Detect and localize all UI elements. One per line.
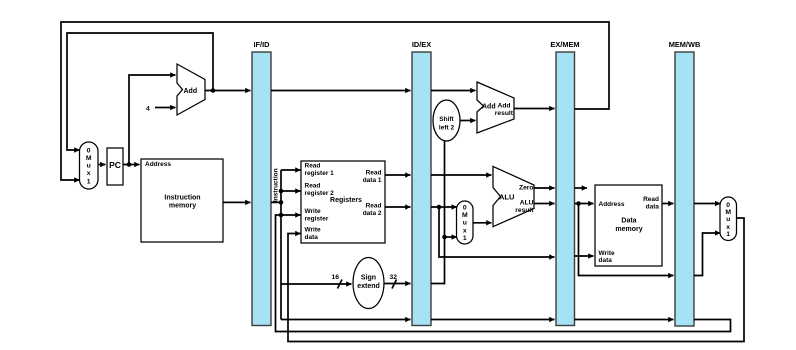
- svg-text:ALU: ALU: [499, 193, 514, 202]
- svg-text:IF/ID: IF/ID: [253, 40, 270, 49]
- node: Add output junction: [211, 88, 216, 93]
- svg-text:Read: Read: [305, 183, 321, 190]
- node: PC output junction: [127, 162, 132, 167]
- svg-text:u: u: [87, 163, 91, 170]
- pipeline register IF/ID: [252, 40, 271, 326]
- svg-text:Zero: Zero: [519, 185, 534, 192]
- wire: PC+4 loop Add to mux M1 input 0: [67, 33, 213, 150]
- bus slash 32: [390, 274, 398, 289]
- svg-text:Sign: Sign: [361, 275, 376, 282]
- svg-text:M: M: [462, 212, 468, 219]
- svg-text:32: 32: [390, 274, 398, 281]
- svg-text:16: 16: [332, 274, 340, 281]
- svg-text:Data: Data: [621, 218, 636, 225]
- svg-text:data 2: data 2: [363, 210, 382, 217]
- svg-text:Write: Write: [599, 250, 616, 257]
- wire: PC+4 ID/EX to branch Add top input: [431, 90, 476, 92]
- wire: ALU result to EX/MEM: [534, 203, 555, 205]
- wire: mux M1 to PC: [98, 164, 106, 166]
- wire: Read data 2 down to EX/MEM write data: [439, 207, 555, 257]
- svg-text:x: x: [463, 227, 467, 234]
- wire: branch Add result to EX/MEM: [514, 108, 555, 110]
- svg-text:PC: PC: [109, 160, 121, 170]
- adder Add (PC+4): [177, 64, 205, 115]
- svg-text:1: 1: [463, 235, 467, 242]
- svg-text:register 2: register 2: [305, 190, 335, 197]
- svg-text:Address: Address: [599, 201, 625, 208]
- wire: PC to Instruction memory Address: [123, 164, 140, 166]
- svg-text:data 1: data 1: [363, 177, 382, 184]
- svg-text:x: x: [87, 170, 91, 177]
- wire: write register number pass IF/ID trunk to ID/EX: [281, 319, 411, 321]
- mux M2 (ALU src): [457, 201, 474, 244]
- svg-text:memory: memory: [615, 226, 642, 233]
- svg-text:Add: Add: [498, 103, 511, 110]
- wire: ALU Zero to EX/MEM: [534, 187, 555, 189]
- wire: ALU result MEM/WB to mux M3 input 1: [694, 233, 720, 276]
- pipeline register MEM/WB: [669, 40, 701, 326]
- wire: Shift left 2 to branch Add bottom input: [460, 120, 476, 122]
- svg-text:M: M: [86, 155, 92, 162]
- svg-text:x: x: [726, 224, 730, 231]
- svg-text:MEM/WB: MEM/WB: [669, 40, 701, 49]
- svg-text:Instruction: Instruction: [273, 168, 280, 202]
- svg-text:1: 1: [87, 179, 91, 186]
- node: ALU result junction: [576, 201, 581, 206]
- wire: sign-extended ID/EX to shift-left-2 vertical: [431, 141, 445, 284]
- svg-text:u: u: [463, 219, 467, 226]
- svg-text:register: register: [305, 216, 329, 223]
- wire: instruction to Read register 1: [281, 169, 301, 171]
- svg-text:u: u: [726, 216, 730, 223]
- node: read register 2 branch junction: [279, 189, 284, 194]
- wire: write-back data mux M3 to Registers Write data: [288, 218, 744, 342]
- mux M3 (write-back): [720, 197, 737, 241]
- mux M1 (PC source): [80, 142, 99, 189]
- wire: write register number loop MEM/WB to Registers Write register: [276, 215, 731, 332]
- svg-text:M: M: [725, 209, 731, 216]
- wire: PC to Add top input: [129, 75, 176, 165]
- node: read data 2 branch junction: [437, 205, 442, 210]
- svg-text:result: result: [515, 207, 534, 214]
- node: ALU mux input-1 branch junction: [442, 235, 447, 240]
- wire: PC+4 IF/ID to ID/EX: [271, 90, 411, 92]
- svg-text:data: data: [305, 234, 319, 241]
- svg-text:Shift: Shift: [439, 116, 454, 123]
- wire: instruction trunk vertical: [280, 170, 282, 320]
- wire: Instruction memory to IF/ID: [223, 201, 251, 203]
- pipeline register ID/EX: [412, 40, 431, 326]
- svg-text:0: 0: [463, 205, 467, 212]
- pipeline register EX/MEM: [550, 40, 579, 326]
- memory block: Instruction memory: [141, 159, 223, 242]
- svg-text:ALU: ALU: [520, 200, 534, 207]
- svg-text:EX/MEM: EX/MEM: [550, 40, 579, 49]
- memory block: Data memory: [595, 185, 662, 266]
- wire: Read data 1 ID/EX to ALU: [431, 174, 492, 176]
- svg-text:ID/EX: ID/EX: [412, 40, 431, 49]
- wire: write data EX/MEM to Data memory: [575, 255, 594, 257]
- svg-text:left 2: left 2: [439, 125, 455, 132]
- register PC: [107, 148, 123, 185]
- wire: write register number EX/MEM to MEM/WB: [575, 319, 674, 321]
- shifter: Shift left 2: [433, 100, 460, 141]
- svg-text:4: 4: [146, 106, 150, 113]
- label: Instruction (rotated): [273, 168, 280, 202]
- svg-text:0: 0: [726, 202, 730, 209]
- svg-text:extend: extend: [357, 283, 380, 290]
- wire: instruction to Sign extend: [281, 283, 352, 285]
- wire: Add output to IF/ID: [205, 90, 251, 92]
- svg-text:1: 1: [726, 231, 730, 238]
- svg-text:0: 0: [87, 148, 91, 155]
- svg-text:Add: Add: [184, 88, 198, 95]
- wire: Read data Data memory to MEM/WB: [662, 203, 674, 205]
- wire: sign-extended to mux M2 input 1: [445, 236, 457, 238]
- svg-text:Add: Add: [482, 104, 496, 111]
- wire: Read data 2 ID/EX to mux M2 input 0: [431, 206, 457, 208]
- svg-text:Read: Read: [366, 203, 382, 210]
- wire: mux M2 to ALU bottom input: [473, 222, 492, 224]
- svg-text:Registers: Registers: [330, 197, 362, 204]
- wire: Zero stub out of EX/MEM: [575, 187, 588, 189]
- svg-text:Read: Read: [305, 163, 321, 170]
- svg-text:Read: Read: [643, 196, 659, 203]
- svg-text:Instruction: Instruction: [164, 195, 200, 202]
- svg-text:Write: Write: [305, 227, 322, 234]
- wire: instruction bus IF/ID to trunk: [271, 201, 281, 203]
- svg-text:data: data: [599, 257, 613, 264]
- wire: write register number ID/EX to EX/MEM: [431, 319, 555, 321]
- svg-text:Write: Write: [305, 208, 322, 215]
- ALU U1: [493, 166, 534, 226]
- wire: Read data 2 Registers to ID/EX: [385, 206, 411, 208]
- wire: Read data MEM/WB to mux M3 input 0: [694, 203, 720, 205]
- svg-text:register 1: register 1: [305, 170, 335, 177]
- node: write register line junction on instruction trunk: [279, 213, 284, 218]
- wire: ALU result EX/MEM to Data memory Address: [575, 203, 594, 205]
- wire: instruction to Read register 2: [281, 190, 301, 192]
- svg-text:result: result: [495, 110, 514, 117]
- wire: branch target loop EX/MEM to mux M1 input 1: [61, 22, 609, 180]
- adder Add (branch target): [477, 82, 514, 133]
- svg-text:memory: memory: [169, 203, 196, 210]
- register file: Registers: [301, 161, 385, 243]
- svg-text:Read: Read: [366, 170, 382, 177]
- wire: 4 to Add: [155, 107, 176, 109]
- svg-text:data: data: [646, 204, 660, 211]
- constant 4: [146, 106, 150, 113]
- wire: ALU result down and to MEM/WB: [579, 204, 674, 276]
- bus slash 16: [332, 274, 343, 289]
- wire: Read data 1 Registers to ID/EX: [385, 174, 411, 176]
- svg-text:Address: Address: [145, 161, 171, 168]
- wire: Sign extend to ID/EX: [384, 283, 411, 285]
- node: instruction bus junction: [279, 200, 284, 205]
- sign extender: Sign extend: [353, 258, 384, 309]
